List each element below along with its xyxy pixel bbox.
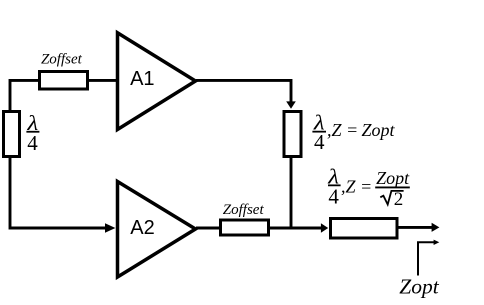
svg-text:Zoffset: Zoffset bbox=[223, 202, 265, 218]
svg-text:A1: A1 bbox=[130, 68, 154, 90]
svg-text:Zopt: Zopt bbox=[362, 120, 396, 140]
svg-text:4: 4 bbox=[27, 131, 38, 155]
svg-text:Zoffset: Zoffset bbox=[41, 51, 83, 67]
svg-text:2: 2 bbox=[394, 189, 404, 210]
svg-text:4: 4 bbox=[328, 185, 339, 209]
svg-text:,Z =: ,Z = bbox=[341, 177, 372, 197]
svg-text:,Z =: ,Z = bbox=[327, 120, 358, 140]
svg-text:Zopt: Zopt bbox=[376, 168, 410, 188]
svg-text:4: 4 bbox=[314, 130, 325, 154]
svg-text:Zopt: Zopt bbox=[399, 275, 439, 299]
svg-text:A2: A2 bbox=[130, 217, 154, 239]
